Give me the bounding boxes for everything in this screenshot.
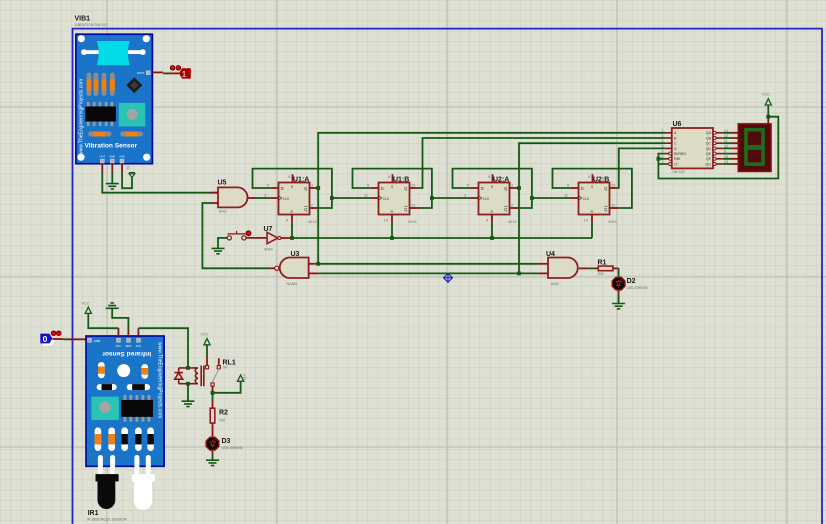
wire relay contact to terminal and R2 <box>213 381 241 408</box>
and gate U4 <box>538 258 588 279</box>
svg-text:OUT: OUT <box>100 155 106 159</box>
wire U2:B feedback loop <box>553 169 632 208</box>
svg-text:6: 6 <box>288 175 290 179</box>
ground below relay coil <box>182 401 195 406</box>
svg-text:IR OBSTACLE SENSOR: IR OBSTACLE SENSOR <box>87 518 127 522</box>
flip-flop U1:A <box>270 174 319 222</box>
svg-text:U3: U3 <box>291 251 300 258</box>
VCC power arrow for relay switch <box>204 339 210 345</box>
svg-text:4: 4 <box>286 219 288 223</box>
svg-text:2: 2 <box>311 204 313 208</box>
svg-text:1: 1 <box>511 184 513 188</box>
wire button to U7 input <box>246 237 267 239</box>
wire U1:B R pin to reset net <box>391 222 393 238</box>
junction U2:A Q <box>517 186 521 190</box>
wire D2 to ground <box>618 290 620 303</box>
wire probe 0 to IR1 enable pin <box>53 338 88 340</box>
wire U5 output to U1:A CLK <box>256 197 270 199</box>
svg-text:3: 3 <box>464 194 466 198</box>
svg-text:U5: U5 <box>218 180 227 187</box>
wire U1:B Q-bar clock to U2:A <box>432 197 470 199</box>
svg-text:OUT: OUT <box>243 373 247 380</box>
svg-text:AND: AND <box>219 210 227 214</box>
wire U1:B feedback loop <box>353 169 432 208</box>
VCC power arrow left of IR1 <box>85 307 91 313</box>
svg-text:QE: QE <box>706 152 712 156</box>
IR receiver LED (black) <box>96 474 119 509</box>
svg-text:5V: 5V <box>223 366 228 370</box>
junction below relay contact <box>211 391 215 395</box>
IR emitter LED (white) <box>132 474 155 510</box>
logic probe 1 <box>170 66 191 80</box>
LED D2 <box>612 277 625 290</box>
and gate U5 <box>211 187 256 207</box>
svg-text:9: 9 <box>367 184 369 188</box>
svg-text:5: 5 <box>467 184 469 188</box>
wire R2 to D3 <box>212 423 214 437</box>
svg-text:200: 200 <box>598 272 604 276</box>
svg-text:QA: QA <box>706 131 712 135</box>
vibration sensor module VIB1 <box>76 34 152 164</box>
logic probe 0 <box>40 331 61 346</box>
svg-text:U1:A: U1:A <box>293 176 309 183</box>
svg-text:11: 11 <box>364 194 368 198</box>
svg-text:12: 12 <box>411 204 415 208</box>
junction U3 top input <box>316 262 320 266</box>
svg-text:4069: 4069 <box>264 248 272 252</box>
junction U2:A clock <box>530 196 534 200</box>
svg-text:DOUT: DOUT <box>137 71 145 75</box>
junction U1:A Q <box>316 186 320 190</box>
svg-text:6: 6 <box>488 175 490 179</box>
svg-text:Vibration Sensor: Vibration Sensor <box>85 142 138 149</box>
svg-text:BI/RBO: BI/RBO <box>674 152 686 156</box>
svg-text:8: 8 <box>388 175 390 179</box>
svg-text:U6: U6 <box>673 121 682 128</box>
ground below D2 <box>612 304 625 309</box>
wire VIB1 DOUT to probe 1 <box>153 72 180 73</box>
svg-text:QD: QD <box>706 147 712 151</box>
svg-text:Infrared Sensor: Infrared Sensor <box>102 350 151 357</box>
wire VCC arrow to display common <box>767 105 769 124</box>
power terminal (down arrow) near VIB1 <box>129 173 135 178</box>
7-segment display <box>738 124 771 171</box>
svg-text:10: 10 <box>584 219 588 223</box>
resistor R1 <box>598 266 613 271</box>
svg-text:VCC: VCC <box>82 302 90 306</box>
wire U1:A feedback loop <box>253 169 332 208</box>
junction reset net U1:A <box>290 236 294 240</box>
wire U3 top input line to U4 <box>318 263 538 265</box>
ground below VIB1 <box>106 184 119 189</box>
svg-text:R2: R2 <box>219 410 228 417</box>
svg-text:NAND: NAND <box>287 282 298 286</box>
wire button to ground <box>218 238 227 248</box>
svg-text:12: 12 <box>611 204 615 208</box>
svg-text:VIBRATION SW-420: VIBRATION SW-420 <box>75 23 108 27</box>
wire U2:B Q to U6 D <box>618 148 666 188</box>
wire VIB1 pin OUT down to U5 input <box>102 164 218 192</box>
svg-text:LED-GREEN: LED-GREEN <box>627 286 648 290</box>
flip-flop U2:B <box>570 174 619 222</box>
svg-text:0: 0 <box>43 334 48 344</box>
svg-text:QF: QF <box>706 157 712 161</box>
LED D3 <box>206 437 219 450</box>
junction relay coil bottom <box>186 382 190 386</box>
resistor R2 <box>210 408 215 423</box>
wire U1:A Q-bar clock to U1:B <box>332 197 370 199</box>
wire U2:A feedback loop <box>453 169 532 208</box>
svg-text:VIB1: VIB1 <box>75 16 91 23</box>
VCC power arrow for display <box>765 99 771 105</box>
wire U6 blanking pins tie to VCC rail <box>658 117 778 179</box>
wire U3 output to U5 lower input <box>202 203 269 268</box>
flip-flop U2:A <box>470 174 519 222</box>
ground below button <box>212 248 225 253</box>
not gate U7 <box>267 232 290 243</box>
svg-text:AND: AND <box>551 282 559 286</box>
wire U1:B Q to U6 B <box>418 138 666 188</box>
svg-text:74LS47: 74LS47 <box>672 170 685 174</box>
svg-text:11: 11 <box>564 194 568 198</box>
junction reset net U2:A <box>490 236 494 240</box>
svg-text:D3: D3 <box>222 438 231 445</box>
ground below D3 <box>206 460 219 465</box>
wire U3 bottom input line to U4 <box>319 272 539 274</box>
svg-text:QB: QB <box>706 136 712 140</box>
svg-text:U1:B: U1:B <box>393 176 409 183</box>
junction relay coil top <box>186 366 190 370</box>
wire U2:A Q to U6 C and U4 input <box>518 143 666 273</box>
svg-text:RBI: RBI <box>674 157 680 161</box>
svg-text:4013: 4013 <box>308 220 316 224</box>
svg-text:7: 7 <box>662 129 664 133</box>
svg-text:VSA: VSA <box>116 344 121 348</box>
svg-text:ENBL: ENBL <box>94 339 101 343</box>
svg-text:2: 2 <box>662 139 664 143</box>
svg-text:4013: 4013 <box>508 220 516 224</box>
svg-text:1: 1 <box>662 134 664 138</box>
svg-text:13: 13 <box>411 184 415 188</box>
wire U1:A R pin to reset net <box>291 222 293 238</box>
svg-text:3: 3 <box>264 194 266 198</box>
junction reset net U1:B <box>390 236 394 240</box>
svg-text:U2:A: U2:A <box>493 176 509 183</box>
wire U2:B R pin to reset net <box>591 222 593 238</box>
svg-text:1: 1 <box>311 184 313 188</box>
wire U1:A Q to U6 A and U3 input <box>318 133 666 264</box>
wire IR1 GND pin to flipped ground <box>112 309 128 336</box>
wire R1 to D2 <box>613 268 619 277</box>
wire U2:A R pin to reset net <box>491 222 493 238</box>
svg-text:OUT: OUT <box>135 344 141 348</box>
wire U2:A Q-bar clock to U2:B <box>532 197 570 199</box>
svg-text:IR1: IR1 <box>88 510 99 517</box>
svg-text:VSA: VSA <box>119 155 124 159</box>
junction display VCC <box>766 115 770 119</box>
svg-text:U4: U4 <box>546 251 555 258</box>
svg-text:5: 5 <box>267 184 269 188</box>
infrared sensor module IR1 <box>86 336 164 475</box>
flipped ground above IR1 <box>106 303 119 308</box>
svg-text:R1: R1 <box>598 259 607 266</box>
svg-text:LED-GREEN: LED-GREEN <box>222 446 243 450</box>
svg-text:9: 9 <box>567 184 569 188</box>
power terminal (up arrow) right of relay <box>238 375 244 381</box>
junction U1:B clock <box>430 196 434 200</box>
wire IR1 OUT pin to relay coil <box>138 328 188 368</box>
nand gate U3 (mirrored) <box>270 258 319 279</box>
svg-text:U7: U7 <box>264 226 273 233</box>
svg-text:10: 10 <box>384 219 388 223</box>
svg-text:4013: 4013 <box>608 220 616 224</box>
wires U6 outputs to display segments <box>723 133 739 164</box>
svg-text:1: 1 <box>182 69 187 79</box>
svg-text:QC: QC <box>706 142 712 146</box>
wire U7 output reset net to flip-flop R pins <box>291 237 593 239</box>
BCD decoder U6 <box>665 128 722 168</box>
svg-text:VCC: VCC <box>762 93 770 97</box>
svg-text:C: C <box>674 142 677 146</box>
svg-text:2: 2 <box>511 204 513 208</box>
relay RL1 coil and flyback diode <box>175 366 204 387</box>
origin marker <box>444 273 453 282</box>
svg-text:www.TheEngineeringProjects.com: www.TheEngineeringProjects.com <box>79 79 85 155</box>
wire U1:A CLK from clock net junction <box>330 196 334 200</box>
svg-text:200: 200 <box>219 419 225 423</box>
relay RL1 switch <box>205 358 220 386</box>
svg-text:8: 8 <box>588 175 590 179</box>
svg-text:4: 4 <box>486 219 488 223</box>
svg-text:VCC: VCC <box>201 333 209 337</box>
junction U6 RBI tie <box>657 157 661 161</box>
wire relay coil to ground <box>187 384 189 401</box>
wire D3 to ground <box>212 450 214 460</box>
junction bottom line from U2:A Q <box>517 272 521 276</box>
svg-text:GND: GND <box>109 155 115 159</box>
wire VIB1 pin VSA to power terminal <box>122 164 132 188</box>
wire IR1 VSA pin to VCC arrow <box>88 313 118 336</box>
svg-text:6: 6 <box>662 144 664 148</box>
wire VCC to relay switch pole <box>206 345 208 366</box>
svg-text:U2:B: U2:B <box>593 176 609 183</box>
push button <box>227 231 251 240</box>
svg-text:GND: GND <box>125 344 131 348</box>
wire U4 output to R1 <box>589 267 599 269</box>
svg-text:4013: 4013 <box>408 220 416 224</box>
svg-text:www.TheEngineeringProjects.com: www.TheEngineeringProjects.com <box>157 342 163 418</box>
svg-text:D2: D2 <box>627 278 636 285</box>
wire VIB1 pin GND to ground <box>111 164 113 183</box>
svg-text:D: D <box>674 147 677 151</box>
svg-text:QG: QG <box>705 162 711 166</box>
flip-flop U1:B <box>370 174 419 222</box>
svg-text:13: 13 <box>611 184 615 188</box>
